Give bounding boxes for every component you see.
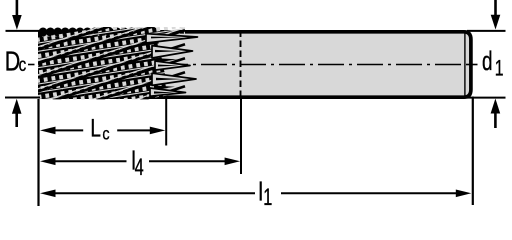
flute tip 3 [155, 61, 190, 70]
dark wedge between tips 4/5 [156, 86, 175, 90]
body right inner edge line [464, 33, 466, 97]
flute left edge bar [38, 30, 42, 99]
l4 boundary dashed line [240, 31, 242, 99]
dark wedge between tips 2/3 [158, 58, 177, 62]
tool body (shank) [39, 32, 471, 97]
svg-text:1: 1 [263, 184, 272, 211]
bottom-right extension line [467, 97, 506, 99]
bottom-left diameter arrow [12, 99, 22, 127]
dimension Lc [40, 114, 165, 144]
top scallop row [39, 28, 159, 37]
Lc right extension line [165, 99, 167, 146]
svg-text:L: L [90, 114, 101, 142]
flute tip 1 [146, 34, 198, 43]
svg-text:4: 4 [135, 154, 144, 181]
flute tip 2 [152, 46, 193, 58]
svg-text:c: c [19, 53, 27, 75]
right extension line below body [472, 97, 474, 206]
bottom-right diameter arrow [491, 99, 501, 129]
flute tip 4 [152, 73, 196, 85]
label d1 [482, 46, 504, 82]
flute tip 5 [150, 88, 186, 96]
top-left extension line [6, 30, 41, 32]
l4 right extension line [240, 99, 242, 174]
left extension line below body [37, 99, 39, 206]
serration fleck rows [36, 17, 185, 114]
top-left diameter arrow [12, 0, 22, 30]
bottom scallop row [40, 88, 167, 97]
flute dense body [39, 35, 168, 90]
bottom-left extension line [5, 97, 40, 99]
svg-text:c: c [102, 124, 109, 144]
svg-text:l: l [258, 177, 263, 206]
centerline [28, 64, 35, 66]
svg-text:d: d [482, 46, 493, 76]
dimension l1 [40, 177, 471, 211]
flute valley highlights [36, 0, 185, 131]
svg-text:1: 1 [495, 57, 504, 81]
top-right diameter arrow [491, 0, 501, 30]
dimension l4 [40, 146, 240, 181]
flute valley lines [36, 2, 185, 134]
top-right extension line [467, 30, 506, 32]
label Dc [5, 47, 27, 77]
serration row separators [36, 20, 185, 109]
